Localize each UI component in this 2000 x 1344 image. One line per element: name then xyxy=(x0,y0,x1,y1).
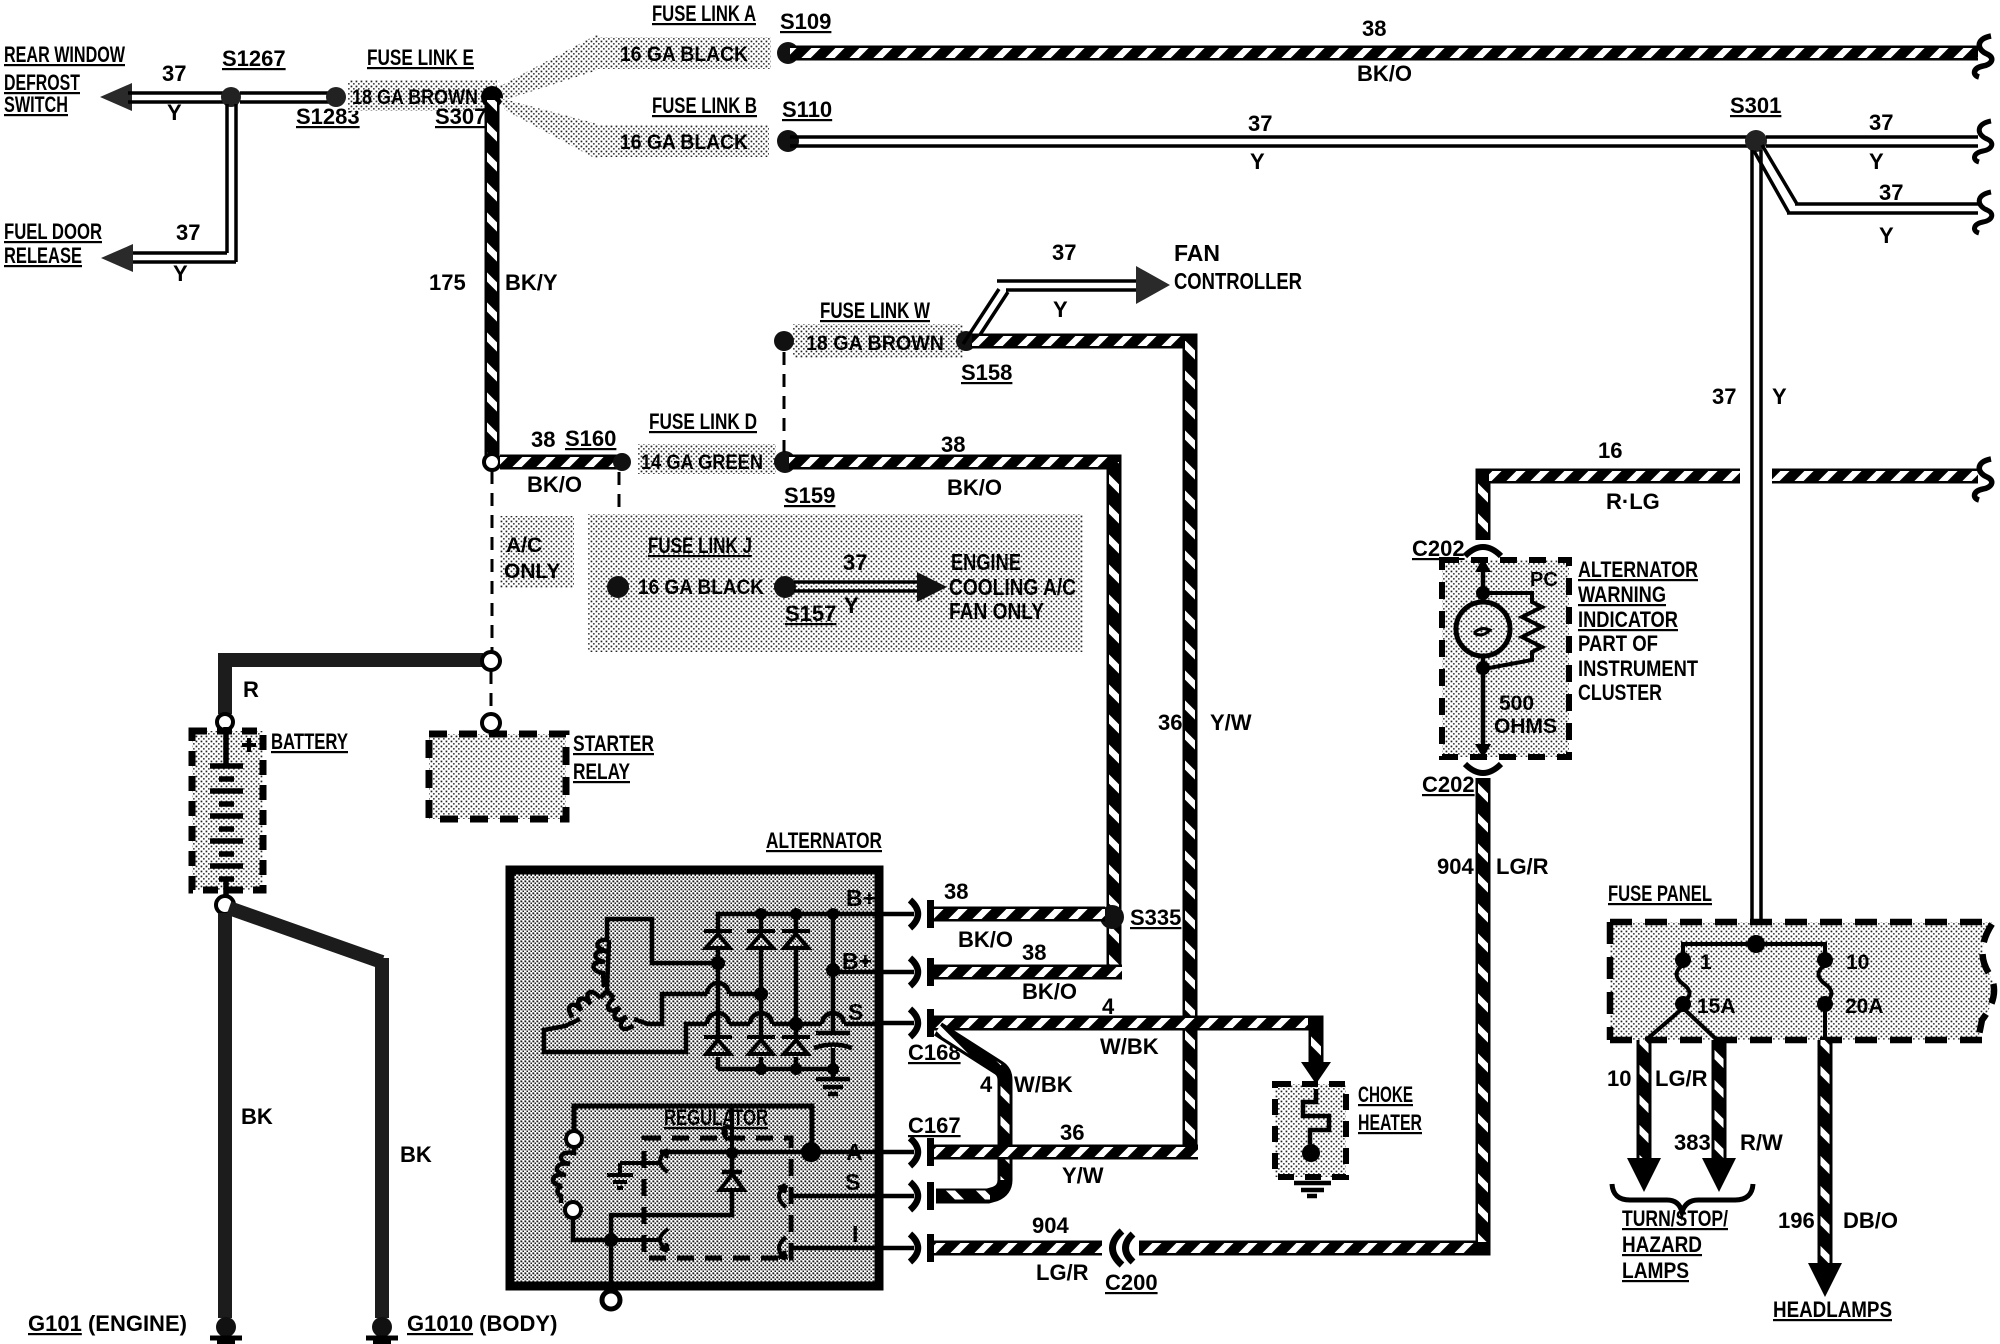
stator phase 1 wire xyxy=(607,919,712,963)
diode column 3 xyxy=(794,914,799,1069)
alternator case terminal circle xyxy=(602,1291,620,1309)
svg-text:RELEASE: RELEASE xyxy=(4,243,82,268)
zener diode column xyxy=(611,1153,742,1240)
wire 904 LG/R from I to C200 xyxy=(934,1241,1102,1256)
battery plus xyxy=(242,738,256,752)
svg-text:ONLY: ONLY xyxy=(504,560,560,583)
A terminal lead xyxy=(879,1150,914,1155)
svg-text:16 GA BLACK: 16 GA BLACK xyxy=(638,576,764,599)
svg-text:500: 500 xyxy=(1499,692,1534,715)
S regulator terminal lead xyxy=(879,1194,914,1199)
stator coil top xyxy=(593,940,609,987)
fuse link D 14 GA GREEN shaded box xyxy=(638,444,776,474)
svg-text:HAZARD: HAZARD xyxy=(1622,1232,1702,1257)
svg-text:REAR WINDOW: REAR WINDOW xyxy=(4,42,125,67)
svg-text:R: R xyxy=(243,677,259,702)
svg-text:Y: Y xyxy=(1869,149,1884,174)
stator phase 3 wire xyxy=(544,1019,790,1052)
svg-text:4: 4 xyxy=(980,1072,993,1097)
wire 37 Y arrow to engine cooling fan xyxy=(794,582,922,591)
svg-text:CHOKE: CHOKE xyxy=(1358,1082,1413,1107)
label ALTERNATOR WARNING INDICATOR PART OF INSTRUMENT CLUSTER xyxy=(1578,557,1698,705)
svg-text:SWITCH: SWITCH xyxy=(4,92,68,117)
junction dots on buses xyxy=(755,908,767,920)
connector C200 xyxy=(1113,1231,1134,1265)
arrow to fuel door release xyxy=(101,244,133,272)
choke heater ground stud xyxy=(1302,1144,1320,1162)
wire 37 Y from S1267 to rear window defrost switch xyxy=(128,93,232,102)
svg-text:37: 37 xyxy=(162,61,186,86)
svg-text:S335: S335 xyxy=(1130,905,1181,930)
svg-text:FUSE LINK D: FUSE LINK D xyxy=(649,409,757,434)
svg-text:INSTRUMENT: INSTRUMENT xyxy=(1578,656,1698,681)
regulator outline xyxy=(574,1106,812,1148)
dashed wire from S158 down to S159 xyxy=(783,352,786,452)
top diode 1 xyxy=(704,931,732,948)
svg-text:BK: BK xyxy=(400,1142,432,1167)
svg-text:ALTERNATOR: ALTERNATOR xyxy=(766,828,882,853)
svg-text:16 GA BLACK: 16 GA BLACK xyxy=(620,131,748,154)
stipple fan from S307 to fuse link A xyxy=(500,34,598,100)
svg-text:G1010 (BODY): G1010 (BODY) xyxy=(407,1311,557,1336)
node S335 xyxy=(1100,905,1124,929)
regulator dashed box xyxy=(644,1138,791,1258)
svg-text:14 GA GREEN: 14 GA GREEN xyxy=(641,451,763,474)
wire 37 Y from S110 to S301 xyxy=(790,137,1750,146)
dashed wire from S160 end down to fuse link J xyxy=(618,472,621,577)
S terminal lead xyxy=(879,1021,914,1026)
svg-text:16 GA BLACK: 16 GA BLACK xyxy=(620,43,748,66)
connector B+2 xyxy=(910,958,918,986)
connector C167 xyxy=(910,1138,918,1166)
svg-text:C167: C167 xyxy=(908,1113,961,1138)
node top of lamp xyxy=(1476,586,1490,600)
B+ terminal 1 lead xyxy=(879,912,914,917)
svg-text:INDICATOR: INDICATOR xyxy=(1578,607,1678,632)
wire 4 W/BK to choke heater xyxy=(934,1023,1316,1062)
svg-text:36: 36 xyxy=(1060,1120,1084,1145)
svg-text:FAN ONLY: FAN ONLY xyxy=(949,598,1044,624)
I terminal lead xyxy=(879,1246,914,1251)
svg-text:37: 37 xyxy=(1879,180,1903,205)
svg-text:Y/W: Y/W xyxy=(1062,1163,1104,1188)
diode column 2 xyxy=(759,914,764,1069)
label ENGINE COOLING A/C FAN ONLY xyxy=(949,549,1076,624)
wire 904 LG/R from C200 right and up to C202 xyxy=(1139,778,1483,1248)
indicator pin arrow bottom xyxy=(1481,668,1486,744)
svg-text:Y: Y xyxy=(167,100,182,125)
svg-text:FUSE LINK E: FUSE LINK E xyxy=(367,45,474,70)
ground below capacitor xyxy=(816,1069,850,1094)
splice S1267 xyxy=(221,87,241,107)
connector C168 xyxy=(910,1009,918,1037)
fuse outputs V xyxy=(1646,1008,1825,1040)
connector S xyxy=(910,1182,918,1210)
svg-text:PART OF: PART OF xyxy=(1578,631,1658,656)
svg-text:FUEL DOOR: FUEL DOOR xyxy=(4,219,102,244)
svg-text:37: 37 xyxy=(176,220,200,245)
label TURN/STOP/ HAZARD LAMPS xyxy=(1622,1206,1728,1283)
svg-text:I: I xyxy=(852,1221,858,1247)
svg-text:Y: Y xyxy=(173,261,188,286)
svg-text:R/W: R/W xyxy=(1740,1130,1783,1155)
svg-text:S157: S157 xyxy=(785,601,836,626)
svg-text:BK/O: BK/O xyxy=(527,472,582,497)
I hook xyxy=(778,1237,786,1259)
node A big xyxy=(801,1142,821,1162)
svg-text:37: 37 xyxy=(1712,384,1736,409)
svg-text:FUSE LINK A: FUSE LINK A xyxy=(652,1,756,26)
starter relay terminal circle xyxy=(482,714,500,732)
svg-text:Y: Y xyxy=(1250,149,1265,174)
svg-text:TURN/STOP/: TURN/STOP/ xyxy=(1622,1206,1728,1231)
stipple fan from S307 to fuse link B xyxy=(500,98,598,160)
choke heater ground xyxy=(1294,1183,1331,1196)
wire hop phase3 over column1 xyxy=(707,1013,729,1024)
bottom bus xyxy=(718,1067,833,1072)
battery bottom terminal circle xyxy=(216,896,234,914)
node in regulator xyxy=(604,1233,618,1247)
indicator pin arrow top xyxy=(1475,558,1491,572)
wire 37 Y from S301 down to fuse panel xyxy=(1752,150,1761,940)
wire hop phase2 over column1 xyxy=(707,983,729,994)
choke heater element xyxy=(1303,1089,1329,1144)
wire S1267 to S1283 xyxy=(240,93,330,102)
svg-text:904: 904 xyxy=(1032,1213,1069,1238)
capacitor plates xyxy=(816,1031,850,1036)
arrow to rear window defrost switch xyxy=(100,83,132,111)
svg-text:S: S xyxy=(845,1169,860,1195)
splice S158 xyxy=(956,331,976,351)
resistor 500 ohms xyxy=(1489,593,1542,668)
diode column 1 xyxy=(716,950,721,1069)
wire 4 W/BK loop from C168 to S terminal xyxy=(936,1029,1005,1196)
wire 37 Y from S158 to fan controller xyxy=(963,281,1140,347)
svg-text:S1267: S1267 xyxy=(222,46,286,71)
splice dot S109 xyxy=(777,42,799,64)
stator coil left xyxy=(566,987,601,1022)
label FAN CONTROLLER xyxy=(1174,240,1302,294)
svg-text:S160: S160 xyxy=(565,426,616,451)
svg-text:38: 38 xyxy=(944,879,968,904)
transistor 2 xyxy=(617,1229,668,1251)
alternator box xyxy=(510,870,879,1286)
svg-text:196: 196 xyxy=(1778,1208,1815,1233)
svg-text:Y: Y xyxy=(844,593,859,618)
wire node to case terminal xyxy=(609,1240,614,1286)
wire BK battery to G1010 xyxy=(229,908,382,1318)
wire 38 BK/O stub S160 xyxy=(500,455,618,470)
fuse link W 18 GA BROWN shaded box xyxy=(793,324,963,358)
S line inside xyxy=(790,1194,879,1199)
svg-text:Y/W: Y/W xyxy=(1210,710,1252,735)
svg-text:4: 4 xyxy=(1102,994,1115,1019)
svg-text:37: 37 xyxy=(843,550,867,575)
terminal letters xyxy=(842,885,876,1247)
label CHOKE HEATER xyxy=(1358,1082,1422,1135)
svg-text:BK/O: BK/O xyxy=(1022,979,1077,1004)
splice dot left of fuse link J xyxy=(607,576,629,598)
splice S1283 xyxy=(326,87,346,107)
svg-text:REGULATOR: REGULATOR xyxy=(664,1105,768,1130)
svg-text:DB/O: DB/O xyxy=(1843,1208,1898,1233)
wire brush to ground node xyxy=(573,1218,605,1240)
ground G1010 (BODY) xyxy=(372,1317,392,1337)
B+ second tap xyxy=(833,970,879,975)
svg-text:W/BK: W/BK xyxy=(1014,1072,1073,1097)
svg-text:G101 (ENGINE): G101 (ENGINE) xyxy=(28,1311,187,1336)
svg-text:B+: B+ xyxy=(842,948,872,974)
fuse 15A xyxy=(1675,952,1691,968)
svg-text:16: 16 xyxy=(1598,438,1622,463)
starter relay box xyxy=(429,734,566,819)
fuse link A 16 GA BLACK shaded box xyxy=(596,37,771,69)
S line out with hop over capacitor column xyxy=(796,1022,879,1027)
stator Y junction xyxy=(600,940,614,998)
choke heater box xyxy=(1275,1084,1346,1177)
fuse link E 18 GA BROWN shaded box xyxy=(348,80,497,111)
svg-text:37: 37 xyxy=(1869,110,1893,135)
wire R from battery to starter relay junction xyxy=(225,660,483,714)
wire 16 R/LG from C202 up and right to edge xyxy=(1483,476,1978,540)
svg-text:W/BK: W/BK xyxy=(1100,1034,1159,1059)
capacitor column xyxy=(831,914,836,1069)
wire 38 BK/O B+2 to S335 drop xyxy=(934,965,1122,980)
rotor brush circle bottom xyxy=(565,1202,581,1218)
junction circle at S160 corner xyxy=(484,454,500,470)
svg-text:C200: C200 xyxy=(1105,1270,1158,1295)
fuse link B 16 GA BLACK shaded box xyxy=(596,125,769,157)
fuse panel internal wires xyxy=(1683,944,1825,953)
rotor brush circle top xyxy=(566,1131,582,1147)
node bottom of lamp xyxy=(1476,661,1490,675)
svg-text:10: 10 xyxy=(1846,951,1869,974)
wire 383 R/W down arrow xyxy=(1712,1040,1727,1160)
S hook xyxy=(778,1185,786,1207)
node S307 xyxy=(481,86,503,108)
A/C ONLY shaded box xyxy=(500,516,574,588)
svg-text:38: 38 xyxy=(1362,16,1386,41)
svg-text:37: 37 xyxy=(1248,111,1272,136)
svg-text:COOLING A/C: COOLING A/C xyxy=(949,574,1076,600)
bottom diode 1 xyxy=(704,1037,732,1054)
svg-text:LG/R: LG/R xyxy=(1655,1066,1708,1091)
svg-text:36: 36 xyxy=(1158,710,1182,735)
svg-text:BK/Y: BK/Y xyxy=(505,270,558,295)
svg-text:S159: S159 xyxy=(784,483,835,508)
I line inside xyxy=(790,1246,879,1251)
svg-text:BATTERY: BATTERY xyxy=(271,729,348,754)
svg-text:ENGINE: ENGINE xyxy=(951,549,1021,575)
battery top terminal circle xyxy=(217,714,233,730)
ground G101 (ENGINE) xyxy=(216,1317,236,1337)
A line inside regulator xyxy=(660,1150,879,1155)
alternator warning indicator box xyxy=(1442,560,1569,757)
wire 196 DB/O down arrow xyxy=(1818,1040,1833,1265)
wire 175 BK/Y from S307 down xyxy=(485,100,500,456)
label 500 OHMS xyxy=(1494,692,1557,738)
transistor 1 xyxy=(620,1150,668,1172)
bottom diode 3 xyxy=(782,1037,810,1054)
transistor 3 on A line xyxy=(724,1108,734,1153)
svg-text:ALTERNATOR: ALTERNATOR xyxy=(1578,557,1698,582)
svg-text:175: 175 xyxy=(429,270,466,295)
svg-text:383: 383 xyxy=(1674,1130,1711,1155)
label STARTER RELAY xyxy=(573,731,654,784)
svg-text:FUSE PANEL: FUSE PANEL xyxy=(1608,881,1712,906)
wire 36 Y/W from S158 right then down to alternator A terminal xyxy=(972,341,1190,1152)
svg-text:FUSE LINK B: FUSE LINK B xyxy=(652,93,757,118)
node S301 xyxy=(1745,130,1767,152)
connector C202 bottom xyxy=(1465,764,1501,773)
splice dot S110 xyxy=(777,130,799,152)
wire 36 Y/W from A to vertical riser xyxy=(934,1145,1198,1160)
splice S157 xyxy=(774,576,796,598)
wire 38 BK/O from S109 to right edge xyxy=(790,46,1978,61)
svg-text:R·LG: R·LG xyxy=(1606,489,1660,514)
connector B+1 xyxy=(910,900,918,928)
indicator lamp xyxy=(1456,602,1510,656)
brace under arrows xyxy=(1612,1184,1753,1212)
svg-text:38: 38 xyxy=(531,427,555,452)
svg-text:FUSE LINK J: FUSE LINK J xyxy=(648,533,752,558)
rotor field coil xyxy=(553,1147,574,1203)
alternator internals xyxy=(544,914,879,1094)
wire 37 Y branch from S301 down-right then to right edge xyxy=(1754,145,1978,213)
engine cooling fan shaded box xyxy=(588,514,1083,652)
stator coil right xyxy=(603,998,638,1033)
svg-text:38: 38 xyxy=(941,432,965,457)
svg-text:S301: S301 xyxy=(1730,93,1781,118)
svg-text:OHMS: OHMS xyxy=(1494,715,1557,738)
splice S159 xyxy=(774,451,796,473)
wire BK battery to G101 xyxy=(218,913,232,1318)
regulator ground symbol xyxy=(607,1163,633,1188)
svg-text:STARTER: STARTER xyxy=(573,731,654,756)
battery box xyxy=(192,731,263,890)
svg-text:Y: Y xyxy=(1879,223,1894,248)
svg-text:904: 904 xyxy=(1437,854,1474,879)
svg-text:S307: S307 xyxy=(435,104,486,129)
top diode 3 xyxy=(782,931,810,948)
B+ bus xyxy=(718,914,879,930)
svg-text:Y: Y xyxy=(1053,297,1068,322)
svg-text:C202: C202 xyxy=(1422,772,1475,797)
svg-text:38: 38 xyxy=(1022,940,1046,965)
svg-text:S109: S109 xyxy=(780,9,831,34)
splice dot left of fuse link W xyxy=(774,331,794,351)
dashed wire junction to starter relay xyxy=(490,671,493,714)
wire 37 Y from S301 to right edge xyxy=(1766,137,1978,146)
svg-text:S110: S110 xyxy=(782,97,832,122)
svg-text:BK/O: BK/O xyxy=(958,927,1013,952)
svg-text:BK: BK xyxy=(241,1104,273,1129)
svg-text:CLUSTER: CLUSTER xyxy=(1578,680,1662,705)
svg-text:B+: B+ xyxy=(846,885,876,911)
svg-text:FUSE LINK W: FUSE LINK W xyxy=(820,298,930,323)
label REAR WINDOW DEFROST SWITCH xyxy=(4,42,125,117)
stator phase 2 wire xyxy=(634,994,755,1024)
svg-text:1: 1 xyxy=(1700,951,1712,974)
svg-text:A/C: A/C xyxy=(506,534,542,557)
battery cells xyxy=(210,727,243,898)
label FUEL DOOR RELEASE xyxy=(4,219,102,268)
fuse panel feed junction xyxy=(1747,935,1765,953)
wire 37 Y from S1267 down to fuel door release xyxy=(131,104,236,262)
wire 10 LG/R down arrow xyxy=(1637,1040,1652,1160)
svg-text:18 GA BROWN: 18 GA BROWN xyxy=(806,332,944,355)
svg-text:20A: 20A xyxy=(1845,995,1884,1018)
svg-text:LAMPS: LAMPS xyxy=(1622,1258,1689,1283)
svg-text:A: A xyxy=(846,1139,863,1165)
svg-text:15A: 15A xyxy=(1697,995,1736,1018)
svg-text:FAN: FAN xyxy=(1174,240,1220,266)
svg-text:Y: Y xyxy=(1772,384,1787,409)
dashed wire from S160 circle down to battery R wire xyxy=(491,471,494,652)
connector C202 top xyxy=(1465,547,1501,556)
svg-text:LG/R: LG/R xyxy=(1496,854,1549,879)
fuse 20A xyxy=(1817,952,1833,968)
svg-text:HEATER: HEATER xyxy=(1358,1110,1422,1135)
wire 38 BK/O from S159 right then down to S335 xyxy=(789,462,1114,965)
svg-text:S: S xyxy=(848,999,863,1025)
svg-text:HEADLAMPS: HEADLAMPS xyxy=(1773,1297,1892,1322)
break symbol xyxy=(1974,36,1991,77)
svg-text:CONTROLLER: CONTROLLER xyxy=(1174,268,1302,294)
svg-text:S158: S158 xyxy=(961,360,1012,385)
B+ terminal 2 lead xyxy=(879,970,914,975)
svg-text:WARNING: WARNING xyxy=(1578,582,1666,607)
svg-text:BK/O: BK/O xyxy=(947,475,1002,500)
svg-text:PC: PC xyxy=(1530,569,1558,591)
bottom diode 2 xyxy=(747,1037,775,1054)
arrow to fan controller xyxy=(1136,266,1170,304)
fuse panel box xyxy=(1610,922,1994,1040)
svg-text:37: 37 xyxy=(1052,240,1076,265)
svg-text:BK/O: BK/O xyxy=(1357,61,1412,86)
svg-text:10: 10 xyxy=(1607,1066,1631,1091)
connector I xyxy=(910,1234,918,1262)
top diode 2 xyxy=(747,931,775,948)
svg-text:RELAY: RELAY xyxy=(573,759,630,784)
wire hop phase3 over column2 xyxy=(750,1013,772,1024)
svg-text:LG/R: LG/R xyxy=(1036,1260,1089,1285)
wire 38 BK/O B+1 to S335 xyxy=(934,907,1105,922)
junction circle on R wire xyxy=(482,652,500,670)
